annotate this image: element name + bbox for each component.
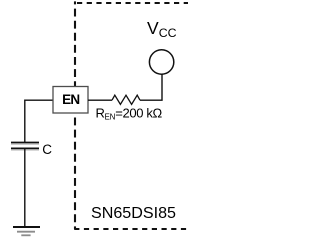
wire from resistor to VCC terminal: [140, 74, 162, 100]
chip boundary dashed line (top): [77, 2, 188, 4]
svg-text:EN: EN: [62, 92, 79, 107]
chip boundary dashed line (bottom): [74, 228, 188, 230]
VCC supply terminal circle: [149, 50, 173, 74]
wire from capacitor to ground: [24, 149, 26, 227]
chip boundary dashed line (left vertical): [74, 1, 76, 229]
ground: [13, 227, 40, 235]
resistor REN zigzag: [112, 95, 140, 104]
svg-text:SN65DSI85: SN65DSI85: [91, 204, 176, 222]
capacitor C (top plate): [11, 142, 39, 144]
capacitor C (bottom plate): [11, 148, 39, 150]
wire from EN box left to capacitor: [25, 100, 53, 142]
wire from EN box right to resistor: [88, 99, 112, 101]
svg-text:C: C: [42, 142, 52, 157]
EN pin box: [53, 87, 88, 114]
